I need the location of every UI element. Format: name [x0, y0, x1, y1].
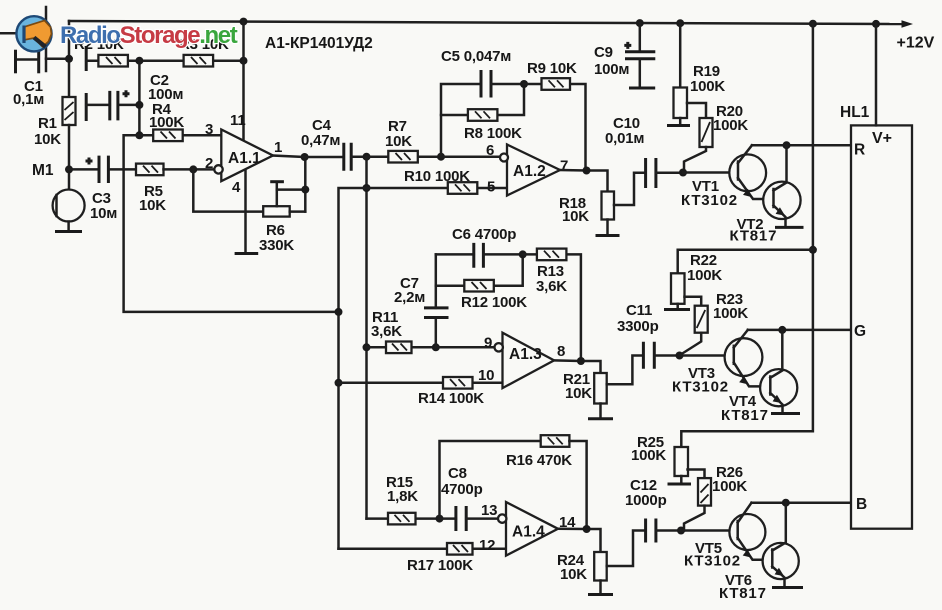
ground C9: [629, 87, 655, 90]
svg-text:10: 10: [478, 367, 494, 384]
svg-text:100K: 100K: [687, 267, 722, 284]
svg-text:G: G: [854, 323, 866, 340]
node collectors G: [778, 326, 786, 334]
wire top +12V rail: [69, 20, 913, 28]
wire feedback pin2: [193, 169, 263, 211]
node A1.2 out: [583, 167, 591, 175]
wire mic to ground: [67, 222, 70, 231]
node R15-C8-R16: [436, 515, 444, 523]
wire node A riser: [441, 84, 481, 157]
resistor R12: [436, 254, 523, 291]
resistor R23: [682, 297, 708, 356]
svg-text:1: 1: [274, 139, 282, 156]
svg-text:9: 9: [484, 335, 492, 352]
svg-text:0,1м: 0,1м: [13, 91, 44, 108]
svg-text:HL1: HL1: [840, 104, 870, 121]
node bus A R14: [335, 379, 343, 387]
svg-text:КТ3102: КТ3102: [672, 379, 729, 396]
node rail-pin11: [240, 18, 248, 26]
wire R6 wiper loop: [277, 157, 306, 212]
resistor R13: [523, 249, 581, 361]
logo globe icon: [16, 16, 51, 51]
capacitor C3: [69, 156, 136, 183]
wire R18 to ground: [606, 220, 609, 235]
ground C1 (vertical bar): [14, 50, 17, 74]
resistor R20: [684, 103, 713, 173]
svg-text:КТ3102: КТ3102: [684, 553, 741, 570]
node VT5 base: [677, 527, 685, 535]
node rail-HL1: [872, 20, 880, 28]
node C1-M1: [65, 55, 73, 63]
svg-text:100K: 100K: [149, 114, 184, 131]
svg-text:R8 100K: R8 100K: [464, 125, 522, 142]
wire C12 elbow: [607, 531, 645, 567]
svg-text:B: B: [856, 496, 867, 513]
wire node X down / bus B: [365, 157, 368, 519]
svg-text:100м: 100м: [594, 61, 629, 78]
wire pin11 supply: [242, 22, 245, 140]
svg-text:5: 5: [487, 179, 495, 196]
op-amp A1.1: [214, 130, 273, 182]
capacitor C9: [624, 23, 655, 87]
svg-text:10K: 10K: [139, 197, 166, 214]
wire node A to pin6: [441, 155, 499, 158]
svg-text:А1.2: А1.2: [513, 163, 546, 180]
svg-text:10K: 10K: [565, 385, 592, 402]
resistor R1: [63, 97, 76, 125]
node M1-C3: [65, 165, 73, 173]
svg-text:КТ817: КТ817: [730, 228, 778, 245]
node VT3 base: [676, 352, 684, 360]
wire bus A: [339, 188, 367, 549]
node rail-G/B feed: [809, 20, 817, 28]
svg-text:100K: 100K: [713, 117, 748, 134]
svg-text:100K: 100K: [713, 305, 748, 322]
svg-text:А1.4: А1.4: [512, 524, 545, 541]
svg-text:C8: C8: [448, 465, 467, 482]
wire C11 elbow: [607, 356, 643, 385]
wire left vertical M1 column: [68, 21, 71, 97]
capacitor C2: [86, 90, 139, 120]
resistor R11: [367, 342, 436, 354]
svg-text:А1.1: А1.1: [228, 150, 261, 167]
wire divider vertical: [138, 61, 141, 136]
transistor VT1: [729, 145, 773, 199]
wire A1.3 output: [554, 360, 600, 373]
transistor VT3: [725, 330, 771, 387]
wire R21 to ground: [599, 404, 602, 418]
svg-text:100K: 100K: [631, 447, 666, 464]
transistor VT4: [760, 330, 797, 413]
svg-text:+12V: +12V: [897, 35, 935, 52]
ground R21: [588, 417, 613, 420]
svg-text:13: 13: [481, 502, 497, 519]
resistor R26: [684, 470, 711, 531]
resistor R18: [602, 192, 615, 220]
lamp module HL1: [851, 125, 912, 528]
wire N3 to pin9: [436, 346, 495, 349]
svg-text:3,6K: 3,6K: [536, 278, 567, 295]
wire A1.1 output: [273, 156, 343, 158]
node bus A bias: [335, 308, 343, 316]
node R3-pin11: [240, 57, 248, 65]
svg-text:4: 4: [232, 179, 241, 196]
capacitor C5: [481, 70, 524, 98]
resistor R2: [86, 55, 139, 67]
wire VT1 collector line: [752, 144, 851, 147]
svg-text:R9 10K: R9 10K: [527, 60, 577, 77]
svg-text:КТ817: КТ817: [719, 585, 767, 602]
node A1.3 out: [577, 357, 585, 365]
node C6-R12-R13: [519, 250, 527, 258]
svg-text:12: 12: [479, 537, 495, 554]
resistor R7: [367, 151, 442, 163]
svg-text:1,8K: 1,8K: [387, 488, 418, 505]
wire base VT1: [683, 171, 738, 174]
wire base VT5: [681, 529, 738, 532]
svg-text:7: 7: [560, 158, 568, 175]
wire VT5 collector line B: [752, 501, 852, 504]
node R4-bias: [135, 131, 143, 139]
resistor R15: [367, 513, 440, 525]
resistor R22: [671, 273, 685, 308]
svg-text:R12 100K: R12 100K: [461, 294, 527, 311]
wire R16 riser: [440, 441, 541, 519]
capacitor C10: [646, 158, 683, 188]
resistor R24: [594, 552, 607, 581]
op-amp A1.4: [498, 502, 558, 556]
resistor R3: [139, 55, 243, 67]
node collectors B: [782, 499, 790, 507]
node C5-R8-R9: [520, 80, 528, 88]
wire VT3 collector line G: [748, 329, 851, 332]
node A1.2 input network: [437, 153, 445, 161]
svg-text:100K: 100K: [690, 78, 725, 95]
op-amp A1.2: [500, 145, 560, 196]
svg-text:10K: 10K: [385, 133, 412, 150]
ground R25: [668, 483, 692, 486]
svg-text:R1: R1: [38, 115, 57, 132]
ground R19: [667, 124, 690, 127]
wire bias to bus A: [124, 135, 339, 312]
wire A1.4 output: [558, 529, 601, 552]
svg-text:КТ3102: КТ3102: [681, 192, 738, 209]
resistor R5: [136, 164, 217, 176]
svg-text:10K: 10K: [562, 208, 589, 225]
resistor R25: [675, 447, 689, 483]
wire R22 feed: [678, 250, 813, 273]
svg-text:C5 0,047м: C5 0,047м: [441, 48, 511, 65]
capacitor C4: [344, 143, 367, 171]
svg-text:0,01м: 0,01м: [605, 130, 644, 147]
svg-text:R17 100K: R17 100K: [407, 557, 473, 574]
ground VT4: [771, 412, 800, 415]
wire G feed from rail: [681, 24, 813, 446]
ground R22: [664, 308, 690, 311]
svg-text:3300p: 3300p: [617, 318, 659, 335]
svg-text:R: R: [854, 142, 865, 159]
wire HL1 V+ feed: [875, 24, 878, 126]
node rail-R19: [676, 19, 684, 27]
svg-text:3: 3: [205, 121, 213, 138]
wire pin4 to ground: [244, 170, 247, 252]
microphone M1: [53, 190, 85, 222]
capacitor C8: [440, 506, 500, 531]
node VT1 base: [679, 169, 687, 177]
svg-text:R14 100K: R14 100K: [418, 390, 484, 407]
svg-text:А1.3: А1.3: [509, 346, 542, 363]
ground M1: [55, 230, 82, 233]
wire A1.2 output: [560, 170, 608, 192]
wire C1 top feed: [45, 7, 48, 71]
resistor R10: [367, 182, 508, 194]
svg-text:2,2м: 2,2м: [394, 289, 425, 306]
ground R18: [596, 234, 620, 237]
wire stray segment top-left: [1, 32, 16, 35]
ground R2 (vertical bar): [85, 46, 88, 71]
resistor R8: [441, 84, 524, 121]
ground C2 (vertical bar): [85, 93, 88, 121]
resistor R6 (trimmer): [263, 182, 305, 217]
svg-text:А1-КР1401УД2: А1-КР1401УД2: [265, 35, 373, 52]
ground VT6: [772, 586, 803, 589]
ground A1.1 pin4: [235, 252, 259, 255]
svg-text:2: 2: [205, 155, 213, 172]
resistor R9: [524, 78, 586, 170]
capacitor C1: [16, 50, 70, 74]
node A1.1 output: [301, 153, 309, 161]
node bus B R11: [363, 343, 371, 351]
node collectors R: [783, 141, 791, 149]
node R6-wiper: [301, 186, 309, 194]
wire R24 to ground: [599, 581, 602, 594]
svg-text:КТ817: КТ817: [721, 407, 769, 424]
resistor R16: [541, 435, 587, 529]
transistor VT2: [763, 145, 800, 226]
node pin2 feedback: [189, 165, 197, 173]
resistor R17: [339, 543, 507, 555]
logo RadioStorage.net: [60, 22, 238, 49]
ground R24: [588, 593, 613, 596]
svg-text:10м: 10м: [90, 205, 117, 222]
transistor VT6: [763, 503, 799, 586]
capacitor C7: [424, 254, 449, 347]
node R2-R3 divider: [135, 57, 143, 65]
ground VT2: [775, 226, 804, 229]
node G feed R22: [809, 246, 817, 254]
op-amp A1.3: [495, 333, 555, 388]
svg-text:10K: 10K: [34, 131, 61, 148]
svg-text:8: 8: [557, 343, 565, 360]
svg-text:4700p: 4700p: [441, 481, 483, 498]
capacitor C11: [643, 342, 679, 369]
svg-text:C6 4700p: C6 4700p: [452, 226, 516, 243]
resistor R21: [594, 373, 607, 404]
svg-text:RadioStorage.net: RadioStorage.net: [60, 22, 238, 49]
svg-text:C9: C9: [594, 44, 613, 61]
resistor R19: [674, 23, 688, 124]
capacitor C6: [436, 243, 523, 268]
svg-text:330K: 330K: [259, 237, 294, 254]
svg-text:C11: C11: [626, 302, 652, 319]
capacitor C12: [646, 519, 681, 543]
node bus junction y188: [363, 184, 371, 192]
svg-text:100K: 100K: [712, 478, 747, 495]
transistor VT5: [729, 503, 772, 560]
resistor R14: [339, 377, 503, 389]
svg-text:R10 100K: R10 100K: [404, 168, 470, 185]
svg-text:10K: 10K: [560, 566, 587, 583]
node X C4 out: [363, 153, 371, 161]
svg-text:11: 11: [230, 112, 245, 129]
svg-text:V+: V+: [872, 130, 892, 147]
svg-text:1000p: 1000p: [625, 492, 667, 509]
wire C10 elbow: [614, 173, 645, 205]
node C2-divider: [135, 101, 143, 109]
resistor R4: [139, 130, 221, 142]
svg-text:3,6K: 3,6K: [371, 323, 402, 340]
wire R1 to mic node: [68, 125, 71, 190]
svg-text:M1: M1: [32, 162, 54, 179]
svg-text:6: 6: [486, 142, 494, 159]
node N3 pin9: [432, 343, 440, 351]
node A1.4 out: [583, 525, 591, 533]
svg-text:0,47м: 0,47м: [301, 132, 340, 149]
node rail-C9: [636, 19, 644, 27]
svg-text:R16 470K: R16 470K: [506, 452, 572, 469]
wire base VT3: [680, 354, 734, 357]
